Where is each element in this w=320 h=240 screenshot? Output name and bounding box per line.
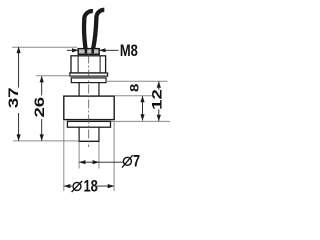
svg-text:18: 18 (84, 177, 98, 196)
dia7 symbol (123, 157, 131, 165)
hex nut body (71, 56, 106, 73)
dia18 symbol (73, 182, 81, 190)
ext line dia7 right (98, 142, 100, 169)
cable gland cap (78, 49, 99, 55)
ext line right float bottom (111, 120, 170, 122)
wire stub right in cap (91, 49, 94, 54)
hex flat line right (99, 56, 101, 72)
svg-text:M8: M8 (120, 41, 138, 60)
dia7 dim line (79, 161, 123, 163)
stem bottom edge (79, 140, 100, 142)
washer 2 (71, 78, 106, 83)
dim 8 line (142, 96, 144, 120)
ext line dia7 left (78, 142, 80, 169)
hex flat line left (77, 56, 79, 72)
wire left (84, 11, 93, 53)
svg-text:37: 37 (6, 87, 21, 108)
wire stub left in cap (85, 49, 88, 54)
centerline (88, 55, 90, 148)
stem lower (78, 127, 80, 141)
svg-text:26: 26 (33, 97, 48, 118)
ext line bottom (37/26) (13, 140, 79, 142)
ext line 26 top (36, 75, 70, 77)
ext line dia18 right (113, 121, 115, 191)
svg-text:8: 8 (128, 83, 141, 92)
M8 leader right (100, 49, 119, 51)
dim 26 line (41, 76, 43, 95)
dia18 dim line (64, 185, 72, 187)
stem upper (78, 83, 80, 96)
svg-text:7: 7 (133, 152, 140, 171)
float body (64, 96, 114, 120)
washer 1 (70, 73, 108, 76)
ext line right top (12) (106, 80, 168, 82)
ext line top (37) (12, 46, 77, 48)
retaining ring (67, 121, 110, 127)
ext line dia18 left (63, 121, 65, 191)
dim 37 line (18, 47, 20, 88)
wire right (93, 10, 104, 53)
ext line right float top (8) (115, 95, 153, 97)
dim 12 line (158, 82, 160, 90)
M8 leader left (67, 49, 78, 51)
svg-text:12: 12 (150, 89, 165, 110)
